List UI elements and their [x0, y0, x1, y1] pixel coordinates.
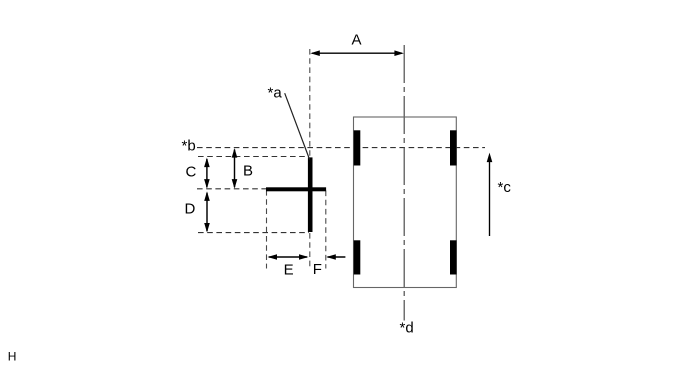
dimension C arrow (double-headed, vertical)	[204, 158, 210, 189]
reference dashed horizontal line *b level (y=148)	[197, 147, 485, 149]
svg-text:*d: *d	[400, 320, 414, 337]
dimension D arrow (double-headed, vertical)	[204, 191, 210, 232]
reference dashed vertical line at right end of target bar (x=326)	[325, 191, 327, 269]
dimension E arrow (double-headed, horizontal)	[268, 254, 309, 260]
reference dashed horizontal line at target cross center (y=188.8)	[197, 188, 266, 190]
svg-text:*c: *c	[498, 179, 512, 196]
svg-text:*a: *a	[268, 85, 283, 102]
vehicle centerline (dash-dot, x=404)	[403, 45, 405, 321]
leader line for *a	[285, 93, 310, 159]
vehicle body outline rectangle	[354, 117, 457, 288]
target cross vertical bar	[308, 157, 313, 232]
dimension B arrow (double-headed, vertical)	[232, 148, 238, 189]
svg-text:A: A	[352, 32, 362, 49]
reference dashed vertical line at left end of target bar (x=266)	[266, 190, 268, 269]
direction arrow *c (vertical, head up)	[487, 153, 493, 236]
target cross horizontal bar	[266, 187, 326, 191]
dimension F arrow (single head pointing left)	[326, 254, 345, 260]
svg-text:H: H	[8, 350, 17, 364]
front-right wheel mark	[450, 130, 457, 165]
front-left wheel mark	[354, 130, 361, 165]
svg-text:*b: *b	[182, 137, 196, 154]
svg-text:E: E	[284, 262, 294, 279]
svg-text:D: D	[185, 201, 196, 218]
reference dashed horizontal line at top of target bar (y=156.5)	[198, 156, 306, 158]
reference dashed vertical line through target center (x=310)	[309, 49, 311, 269]
reference dashed horizontal line at bottom of target bar (y=232.6)	[198, 232, 309, 234]
svg-text:B: B	[243, 163, 253, 180]
svg-text:C: C	[186, 164, 197, 181]
rear-left wheel mark	[354, 240, 361, 274]
dimension A arrow (double-headed, horizontal)	[310, 50, 404, 56]
rear-right wheel mark	[450, 240, 457, 274]
svg-text:F: F	[313, 261, 322, 278]
